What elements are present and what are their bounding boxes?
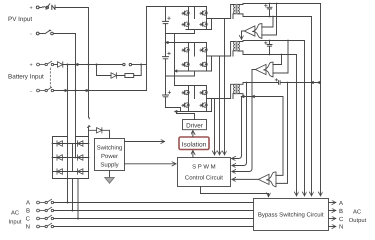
- AC output stub A: [329, 202, 336, 204]
- capacitor C-in3: [163, 95, 169, 97]
- U2 input tap A: [273, 55, 282, 65]
- transistor Q7: [182, 62, 189, 66]
- stage1 left leg: [188, 7, 190, 30]
- bridge phase drop to line B: [72, 179, 74, 211]
- bridge row 3 wire: [53, 171, 89, 173]
- Isolation box: [179, 137, 209, 150]
- stage1 right leg: [206, 7, 208, 30]
- wire battery+ term to diode: [54, 64, 58, 66]
- cap bus segments: [165, 7, 167, 108]
- arrow joint into PV- bus: [76, 64, 78, 66]
- wire PV+ to corner and down bus x=88.5: [55, 8, 89, 118]
- U1 input tap B: [262, 4, 277, 36]
- transistor Q8: [200, 62, 207, 66]
- bridge internal vertical x=72: [72, 144, 74, 172]
- svg-text:Control Circuit: Control Circuit: [185, 175, 223, 182]
- precharge resistor R1: [125, 74, 134, 78]
- rectifier bridge frame: [53, 137, 89, 179]
- stage2 top rail: [166, 42, 206, 44]
- stage1-2 interconnect: [166, 30, 195, 86]
- stage2 bottom rail: [176, 70, 212, 72]
- transistor Q6: [200, 48, 207, 52]
- stage2 right leg: [206, 43, 208, 72]
- transformer T2: [234, 41, 240, 51]
- junction dot A: [67, 202, 69, 204]
- PV+ fuse bumps: [42, 6, 46, 7]
- stage2 left leg: [188, 43, 190, 72]
- wire midline down to bottom rail s1: [211, 19, 213, 30]
- diode D-bat: [57, 62, 62, 67]
- Driver box: [183, 120, 207, 130]
- SPWM feed line from stage2: [219, 56, 221, 155]
- precharge branch down: [97, 65, 109, 76]
- arrow joint bat- into x=67 bus: [64, 90, 66, 92]
- T2 primary bottom wire: [233, 51, 235, 56]
- bus line 3: [304, 41, 306, 196]
- junction dot bat- PV- bus: [75, 90, 77, 92]
- transformer T1: [234, 4, 240, 14]
- stage3 top rail: [175, 85, 207, 87]
- PV- terminal circle: [36, 32, 39, 35]
- svg-text:Output: Output: [349, 217, 367, 224]
- SPWM feed line from stage3: [214, 99, 216, 155]
- svg-text:Battery Input: Battery Input: [8, 73, 44, 80]
- svg-text:B: B: [339, 208, 343, 215]
- bus line 4: [296, 55, 298, 196]
- AC B terminal: [37, 207, 54, 212]
- stage3 right mid wire to riser: [207, 98, 231, 100]
- SPWM Control Circuit box: [178, 158, 231, 187]
- U2 output drop to SPWM right edge: [232, 70, 255, 172]
- stage2 rail-to-mid vertical: [194, 43, 196, 57]
- capacitor C-in2: [163, 57, 169, 59]
- stage1 right mid wire to riser: [207, 18, 231, 20]
- svg-text:Supply: Supply: [100, 162, 118, 169]
- wire battery+ diode to relay: [63, 64, 123, 66]
- U2 input tap B: [273, 41, 288, 74]
- T1 primary bottom wire: [233, 14, 235, 19]
- junction dot precharge left: [96, 64, 98, 66]
- svg-text:A: A: [339, 200, 343, 207]
- junction dot C: [77, 218, 79, 220]
- svg-text:+: +: [30, 63, 33, 69]
- wire battery- to center bus: [54, 90, 147, 92]
- T1 secondary top wire: [238, 4, 321, 5]
- SPWM right-edge feed from stage3 top: [232, 83, 247, 166]
- AC output stub C: [329, 218, 336, 220]
- PV+ breaker N symbol: [52, 5, 55, 9]
- bridge diode D11: [57, 141, 62, 146]
- svg-text:C: C: [339, 216, 344, 223]
- transistor Q5: [182, 48, 189, 52]
- wire C: [54, 218, 254, 220]
- bus line 1: [320, 4, 322, 196]
- T3 primary bottom wire: [233, 94, 235, 99]
- svg-text:S P W M: S P W M: [192, 163, 216, 170]
- transistor Q12: [200, 103, 207, 107]
- SPWM bottom output to bypass box: [201, 187, 269, 197]
- junction dot B: [72, 210, 74, 212]
- transistor Q4: [200, 22, 207, 26]
- stage3 rail-to-mid vertical: [194, 86, 196, 99]
- dashed gang link between battery switches: [49, 68, 51, 87]
- svg-text:B: B: [26, 208, 30, 215]
- svg-text:C: C: [26, 216, 31, 223]
- junction dot: [67, 64, 69, 66]
- stage2 right mid wire to riser: [207, 55, 231, 57]
- transistor Q3: [182, 22, 189, 26]
- PV+ switch circle with blade: [46, 6, 49, 9]
- AC N terminal: [37, 223, 54, 228]
- transistor Q11: [182, 103, 189, 107]
- center-left vertical bus x=146: [146, 7, 148, 91]
- wire diode to SPS box: [102, 130, 110, 138]
- transistor Q9: [182, 90, 189, 94]
- svg-text:Bypass Switching Circuit: Bypass Switching Circuit: [258, 212, 324, 219]
- battery+ terminal: [37, 61, 54, 66]
- Switching Power Supply box: [95, 139, 125, 171]
- wire midline down to bottom rail s3: [211, 99, 213, 112]
- stage1 top rail: [147, 6, 207, 8]
- arrow isolation to driver: [192, 131, 194, 137]
- T3 secondary bottom wire to U4 input: [238, 94, 283, 176]
- stage2-3 interconnect: [166, 71, 195, 76]
- T3 secondary top wire with series cap: [238, 83, 321, 85]
- diode D-sps: [97, 128, 102, 133]
- capacitor C1out: [267, 4, 272, 17]
- riser to T2 primary top: [231, 42, 235, 57]
- svg-text:-: -: [30, 32, 32, 38]
- arrow spwm to isolation: [192, 151, 194, 158]
- svg-text:Power: Power: [101, 153, 118, 160]
- wire A: [54, 202, 254, 204]
- bridge diode D21: [57, 155, 62, 160]
- precharge diode: [111, 73, 116, 78]
- arrow joints on sec bottom wire: [242, 96, 244, 98]
- stage3 left leg: [188, 86, 190, 112]
- svg-text:AC: AC: [353, 208, 361, 215]
- capacitor C2out: [267, 41, 272, 55]
- U1 input tap A: [262, 17, 273, 28]
- junction dot precharge right: [140, 64, 142, 66]
- svg-text:N: N: [26, 224, 30, 231]
- Bypass Switching Circuit box: [254, 199, 329, 231]
- stage3 bottom rail with left arrow joint: [176, 111, 212, 113]
- AC output stub B: [329, 210, 336, 212]
- driver tap from stage3 rail: [177, 112, 195, 120]
- bus line 2: [311, 17, 313, 196]
- svg-text:A: A: [26, 200, 30, 207]
- riser to T1 primary top: [231, 5, 235, 19]
- wire PV- to corner and down bus x=75.8: [53, 34, 75, 158]
- bridge diode D12: [78, 141, 83, 146]
- PV+ terminal circle: [36, 6, 39, 9]
- transformer T3: [234, 84, 240, 94]
- ground below SPS: [109, 171, 111, 178]
- bridge phase drop to line C: [77, 179, 79, 219]
- svg-text:Switching: Switching: [97, 145, 123, 152]
- arrow joint bat- into PV+ bus: [85, 90, 87, 92]
- transistor Q2: [200, 11, 207, 15]
- svg-text:+: +: [30, 6, 33, 12]
- transistor Q10: [200, 90, 207, 94]
- bridge junction dots: [52, 143, 90, 159]
- U1 output drop to stage2 wire: [242, 31, 245, 39]
- bridge diode D22: [78, 155, 83, 160]
- AC output stub N: [329, 226, 336, 228]
- PV- switch blade: [46, 30, 51, 33]
- wire: [39, 33, 45, 35]
- cap bus bottom hook: [166, 108, 181, 112]
- SPS output arrow to isolation area: [125, 141, 165, 143]
- junction dot PV+ bus: [88, 64, 90, 66]
- T2 secondary bottom wire: [238, 51, 297, 55]
- wire: [39, 7, 42, 9]
- wire relay to bus: [132, 64, 147, 66]
- T2 secondary top wire: [238, 41, 305, 42]
- capacitor C-in1: [163, 21, 169, 23]
- svg-text:-: -: [30, 89, 32, 95]
- stage1 rail-to-mid vertical: [194, 7, 196, 19]
- wire switch junction down to rectifier frame: [88, 130, 90, 136]
- svg-text:PV Input: PV Input: [8, 16, 32, 23]
- drop line from sec bottom to SPWM corner: [232, 97, 242, 159]
- op-amp U1: [244, 24, 262, 39]
- svg-text:Isolation: Isolation: [182, 141, 207, 148]
- SPS output arrow to SPWM: [125, 163, 176, 165]
- wire switch to diode: [89, 127, 97, 130]
- T1 secondary bottom wire: [238, 14, 312, 17]
- wire N: [54, 226, 254, 228]
- drop from sec top wire to U4 lower input: [276, 83, 288, 184]
- switch to SPS from PV+ bus: [88, 117, 91, 119]
- stage3 right leg: [206, 86, 208, 112]
- AC C terminal: [37, 215, 54, 220]
- transistor Q1: [182, 11, 189, 15]
- bridge row 2 wire: [53, 157, 89, 159]
- stage1 bottom rail: [186, 29, 212, 31]
- bridge row 1 wire: [53, 143, 89, 145]
- op-amp U2: [255, 62, 273, 77]
- bus x=67 from battery+ down to AC line A: [67, 65, 69, 203]
- riser to T3 primary top: [231, 84, 235, 98]
- svg-text:N: N: [339, 224, 343, 231]
- bridge diode D32: [78, 169, 83, 174]
- SPWM feed line from stage1: [224, 19, 226, 155]
- wire diode to resistor: [109, 75, 125, 77]
- AC A terminal: [37, 199, 54, 204]
- wire B: [54, 210, 254, 212]
- PV- switch circle: [51, 32, 54, 35]
- battery- terminal: [37, 87, 54, 92]
- U4 output arrow into SPWM right edge: [232, 178, 258, 180]
- svg-text:Driver: Driver: [186, 122, 203, 129]
- wire resistor up to line: [134, 65, 142, 76]
- capacitor C3 series plates: [279, 81, 281, 85]
- wire midline down to bottom rail s2: [211, 56, 213, 71]
- svg-text:AC: AC: [11, 210, 19, 217]
- bridge diode D31: [57, 169, 62, 174]
- relay contact circles: [123, 63, 125, 65]
- arrow joints into right buses: [311, 82, 313, 84]
- svg-text:Input: Input: [9, 220, 22, 226]
- op-amp U4: [258, 172, 276, 187]
